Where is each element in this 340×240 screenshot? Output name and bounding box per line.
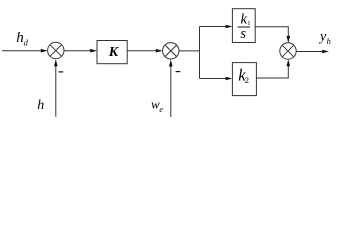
svg-text:K: K: [108, 45, 120, 60]
wire S2 to branch node: [179, 50, 200, 52]
wire k2 output to S3: [256, 65, 288, 78]
svg-text:s: s: [240, 26, 246, 42]
wire branch to k2: [200, 78, 228, 80]
svg-text:2: 2: [245, 75, 249, 85]
arrowhead h into S1: [54, 59, 58, 66]
svg-text:h: h: [327, 36, 331, 46]
block k1/s: [232, 9, 255, 43]
fraction bar in k1/s: [238, 26, 250, 28]
wire K to S2: [127, 50, 157, 52]
summing junction S3: [280, 43, 296, 59]
svg-text:h: h: [37, 98, 44, 113]
wire w_e input (vertical): [170, 65, 172, 117]
minus sign at S1: [59, 71, 64, 73]
arrowhead into k2: [226, 77, 233, 81]
wire h_d input: [2, 50, 42, 52]
arrowhead into summing junction S1: [41, 49, 48, 53]
arrowhead output: [322, 50, 329, 54]
block K: [97, 41, 127, 64]
svg-text:e: e: [159, 105, 163, 114]
arrowhead into k1/s: [226, 25, 233, 29]
arrowhead down into S3: [287, 36, 291, 43]
svg-text:h: h: [16, 30, 24, 46]
block k2: [232, 63, 256, 96]
wire k1/s output to S3: [255, 27, 288, 38]
arrowhead w_e into S2: [169, 60, 173, 67]
arrowhead into S2: [156, 49, 163, 53]
summing junction S2: [163, 43, 179, 59]
wire branch to k1/s: [200, 26, 228, 28]
wire branch vertical: [199, 27, 201, 79]
svg-text:1: 1: [247, 20, 250, 27]
wire S1 to K: [64, 50, 92, 52]
arrowhead into K: [90, 49, 97, 53]
wire output y_h: [296, 51, 323, 53]
wire h input (vertical): [55, 65, 57, 117]
svg-text:d: d: [24, 38, 29, 48]
minus sign at S2: [176, 71, 181, 73]
arrowhead up into S3: [287, 59, 291, 66]
summing junction S1: [48, 42, 64, 58]
